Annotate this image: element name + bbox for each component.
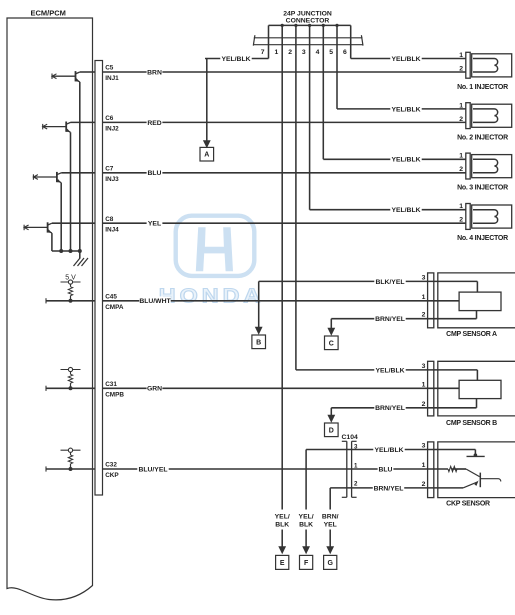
svg-text:BRN/YEL: BRN/YEL xyxy=(375,405,405,412)
svg-text:3: 3 xyxy=(354,443,358,450)
svg-text:BLK: BLK xyxy=(275,522,289,529)
svg-text:C32: C32 xyxy=(105,462,117,469)
svg-text:2: 2 xyxy=(422,401,426,408)
svg-text:BLU/WHT: BLU/WHT xyxy=(139,298,171,305)
svg-text:1: 1 xyxy=(459,102,463,109)
svg-text:BLU: BLU xyxy=(148,170,162,177)
svg-text:BRN/YEL: BRN/YEL xyxy=(374,485,404,492)
svg-text:INJ3: INJ3 xyxy=(105,176,119,183)
svg-text:RED: RED xyxy=(147,120,161,127)
svg-text:YEL/BLK: YEL/BLK xyxy=(221,56,250,63)
svg-text:A: A xyxy=(204,152,209,159)
svg-text:2: 2 xyxy=(288,49,292,56)
svg-text:CONNECTOR: CONNECTOR xyxy=(286,18,330,25)
svg-text:CKP SENSOR: CKP SENSOR xyxy=(446,501,490,508)
svg-text:ECM/PCM: ECM/PCM xyxy=(31,9,66,18)
svg-text:CMPA: CMPA xyxy=(105,304,124,311)
svg-text:2: 2 xyxy=(459,116,463,123)
svg-text:BLU/YEL: BLU/YEL xyxy=(138,466,167,473)
svg-text:1: 1 xyxy=(422,462,426,469)
svg-text:C31: C31 xyxy=(105,381,117,388)
svg-text:E: E xyxy=(280,560,285,567)
svg-text:INJ4: INJ4 xyxy=(105,226,119,233)
svg-text:No. 4 INJECTOR: No. 4 INJECTOR xyxy=(457,235,508,242)
svg-text:YEL/BLK: YEL/BLK xyxy=(391,157,420,164)
svg-text:4: 4 xyxy=(316,49,320,56)
svg-text:1: 1 xyxy=(459,153,463,160)
svg-text:BRN: BRN xyxy=(147,69,162,76)
svg-text:YEL/: YEL/ xyxy=(275,513,290,520)
svg-text:YEL: YEL xyxy=(148,221,161,228)
svg-text:2: 2 xyxy=(459,65,463,72)
svg-text:No. 1 INJECTOR: No. 1 INJECTOR xyxy=(457,84,508,91)
svg-text:3: 3 xyxy=(422,363,426,370)
svg-text:1: 1 xyxy=(459,203,463,210)
svg-text:C104: C104 xyxy=(342,434,358,441)
svg-text:INJ2: INJ2 xyxy=(105,126,119,133)
svg-text:1: 1 xyxy=(275,49,279,56)
svg-text:BLU: BLU xyxy=(379,466,393,473)
svg-text:GRN: GRN xyxy=(147,386,162,393)
svg-text:C5: C5 xyxy=(105,65,114,72)
svg-text:1: 1 xyxy=(354,462,358,469)
svg-text:C7: C7 xyxy=(105,165,114,172)
svg-text:YEL: YEL xyxy=(324,522,337,529)
svg-text:CMPB: CMPB xyxy=(105,392,124,399)
svg-text:1: 1 xyxy=(422,381,426,388)
svg-text:BRN/: BRN/ xyxy=(322,513,339,520)
svg-text:5: 5 xyxy=(329,49,333,56)
svg-text:1: 1 xyxy=(422,294,426,301)
svg-text:B: B xyxy=(256,339,261,346)
svg-text:1: 1 xyxy=(459,52,463,59)
svg-text:INJ1: INJ1 xyxy=(105,75,119,82)
svg-text:2: 2 xyxy=(459,217,463,224)
svg-text:2: 2 xyxy=(422,481,426,488)
svg-text:2: 2 xyxy=(354,481,358,488)
svg-text:3: 3 xyxy=(422,274,426,281)
svg-text:BRN/YEL: BRN/YEL xyxy=(375,316,405,323)
svg-text:YEL/BLK: YEL/BLK xyxy=(375,367,404,374)
svg-text:2: 2 xyxy=(459,166,463,173)
svg-text:G: G xyxy=(327,560,333,567)
svg-text:CMP SENSOR B: CMP SENSOR B xyxy=(446,420,497,427)
svg-text:C: C xyxy=(329,340,334,347)
svg-text:D: D xyxy=(329,427,334,434)
svg-text:YEL/BLK: YEL/BLK xyxy=(391,106,420,113)
svg-text:CKP: CKP xyxy=(105,472,119,479)
svg-text:YEL/BLK: YEL/BLK xyxy=(374,447,403,454)
svg-text:3: 3 xyxy=(302,49,306,56)
svg-text:CMP SENSOR A: CMP SENSOR A xyxy=(446,331,497,338)
svg-text:YEL/BLK: YEL/BLK xyxy=(391,207,420,214)
svg-text:24P JUNCTION: 24P JUNCTION xyxy=(283,10,332,17)
svg-text:C45: C45 xyxy=(105,293,117,300)
svg-text:2: 2 xyxy=(422,312,426,319)
svg-text:No. 2 INJECTOR: No. 2 INJECTOR xyxy=(457,134,508,141)
svg-text:7: 7 xyxy=(261,49,265,56)
svg-text:BLK/YEL: BLK/YEL xyxy=(375,279,404,286)
svg-text:F: F xyxy=(304,560,309,567)
svg-text:No. 3 INJECTOR: No. 3 INJECTOR xyxy=(457,185,508,192)
svg-text:HONDA: HONDA xyxy=(159,284,265,307)
svg-text:C8: C8 xyxy=(105,216,114,223)
svg-text:YEL/BLK: YEL/BLK xyxy=(391,56,420,63)
svg-text:YEL/: YEL/ xyxy=(299,513,314,520)
svg-text:BLK: BLK xyxy=(299,522,313,529)
svg-text:3: 3 xyxy=(422,443,426,450)
svg-text:6: 6 xyxy=(343,49,347,56)
svg-text:C6: C6 xyxy=(105,115,114,122)
